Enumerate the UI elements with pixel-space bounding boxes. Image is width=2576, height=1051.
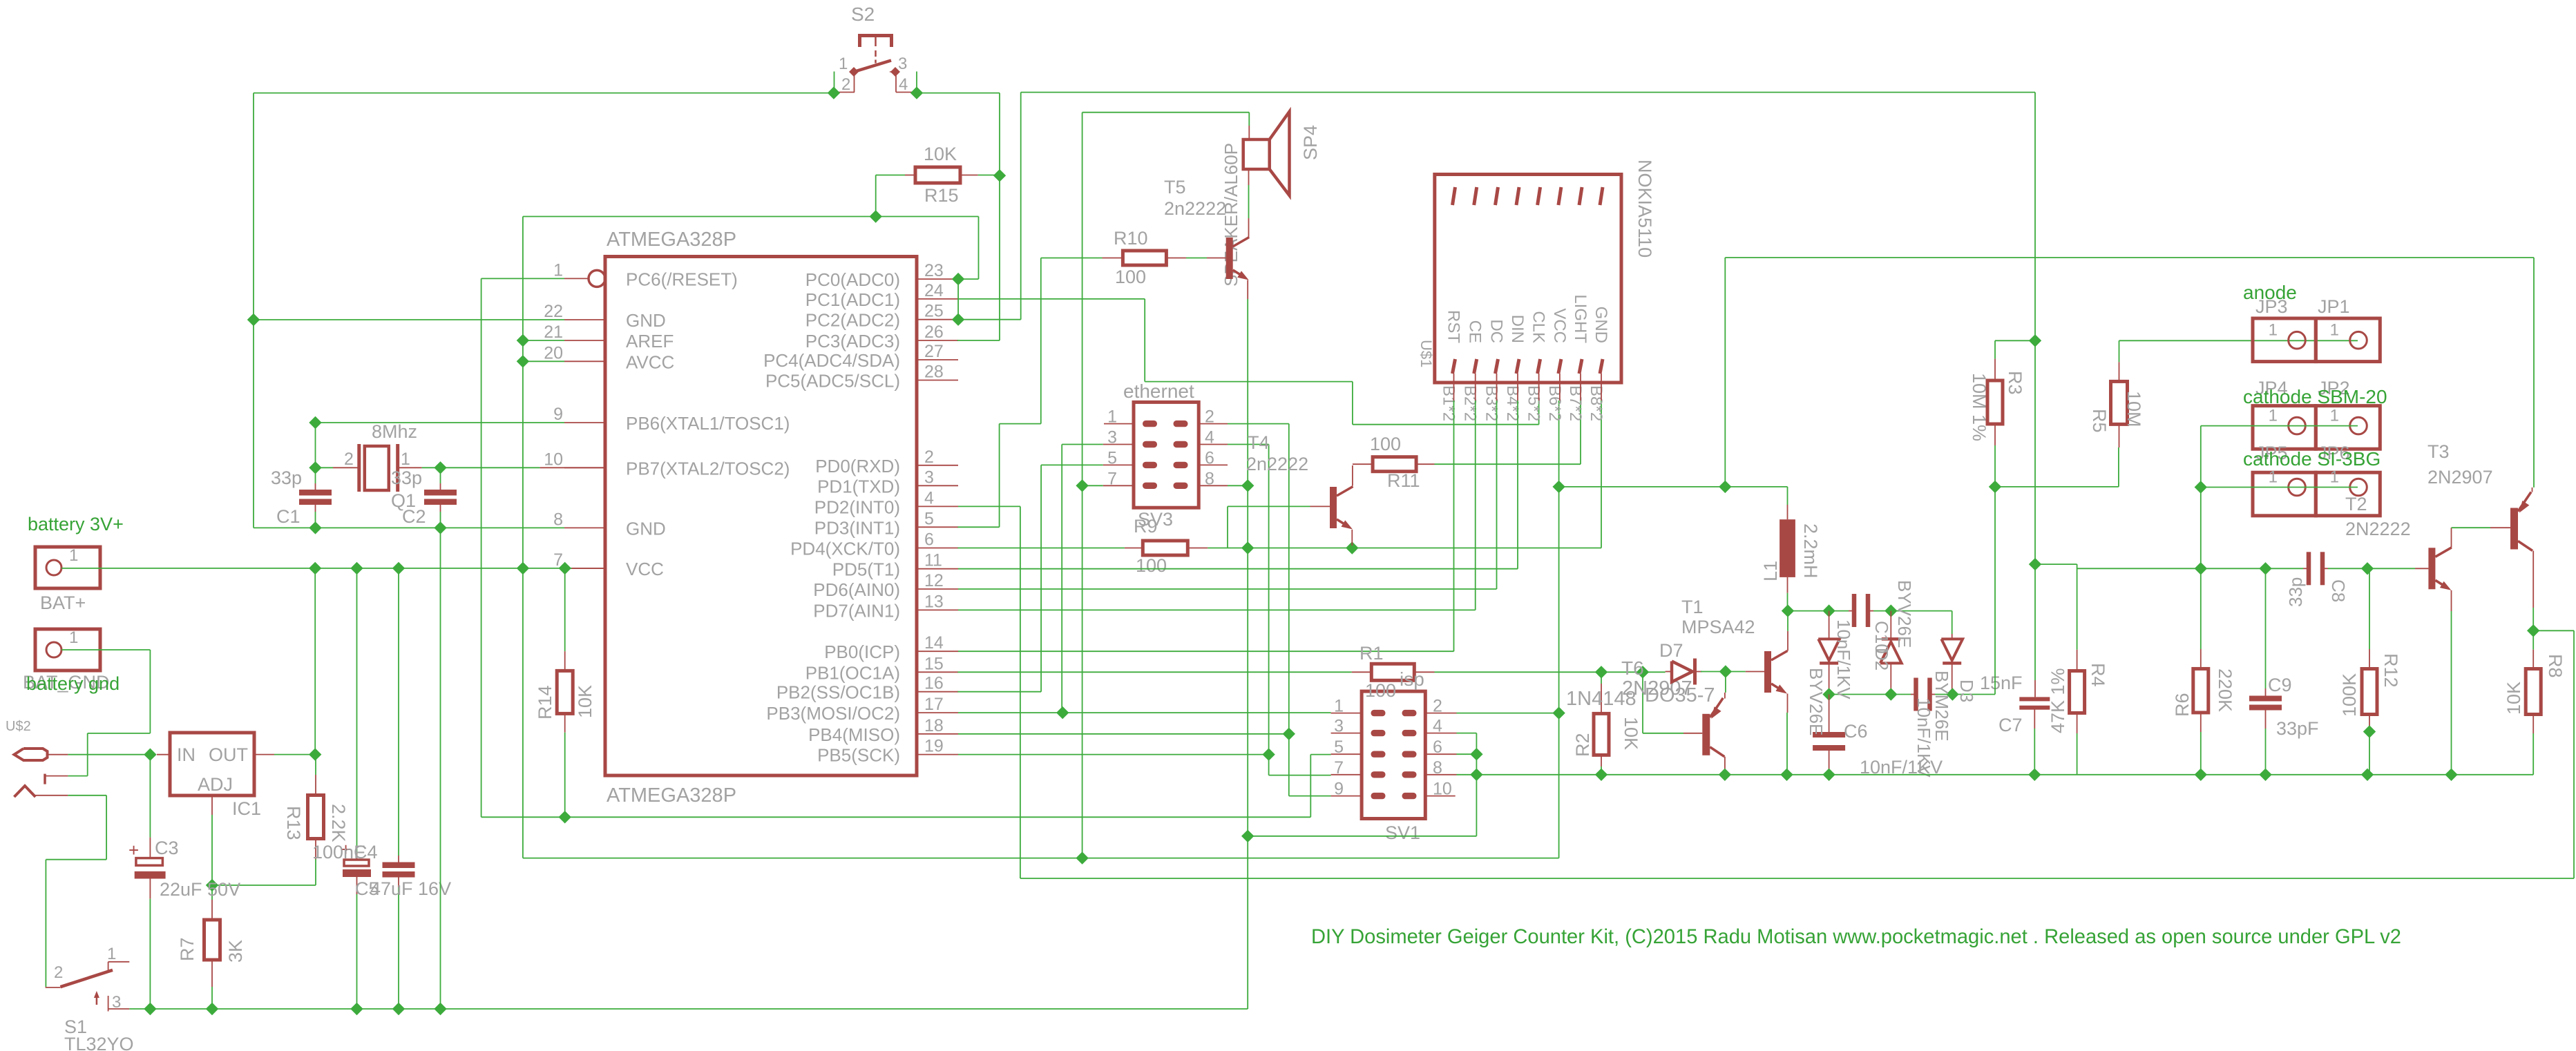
svg-text:MPSA42: MPSA42 [1681,617,1755,637]
svg-text:cathode SBM-20: cathode SBM-20 [2243,386,2387,407]
svg-text:1: 1 [2269,468,2278,487]
svg-text:PD4(XCK/T0): PD4(XCK/T0) [790,539,900,559]
svg-text:BYV26E: BYV26E [1894,580,1915,648]
svg-text:AREF: AREF [626,331,674,351]
svg-text:PC2(ADC2): PC2(ADC2) [805,310,900,331]
svg-text:24: 24 [924,281,944,300]
svg-text:1: 1 [107,945,116,963]
svg-text:R12: R12 [2381,653,2401,688]
svg-text:10K: 10K [924,144,957,164]
svg-text:2: 2 [841,75,850,94]
svg-text:C7: C7 [1998,715,2023,735]
svg-text:2n2222: 2n2222 [1246,454,1308,474]
svg-text:12: 12 [924,571,944,590]
svg-text:GND: GND [626,518,666,539]
svg-text:10K: 10K [575,685,595,718]
svg-text:10M: 10M [2124,391,2144,427]
svg-text:1N4148: 1N4148 [1566,688,1637,710]
svg-text:R8: R8 [2545,654,2566,678]
svg-text:1: 1 [401,450,410,469]
svg-text:33p: 33p [2285,577,2306,607]
svg-text:PD0(RXD): PD0(RXD) [815,456,900,476]
svg-text:D7: D7 [1659,640,1683,661]
svg-text:10M 1%: 10M 1% [1969,373,1990,441]
svg-text:1: 1 [69,546,78,565]
svg-text:OUT: OUT [209,744,248,765]
svg-text:5: 5 [924,509,934,528]
svg-text:IC1: IC1 [232,798,261,819]
svg-text:LIGHT: LIGHT [1571,294,1590,343]
svg-text:R15: R15 [924,185,959,206]
svg-text:15: 15 [924,654,944,673]
svg-text:10K: 10K [2503,682,2524,715]
svg-text:R3: R3 [2005,371,2025,395]
svg-text:B1*2: B1*2 [1440,385,1458,421]
svg-text:PC1(ADC1): PC1(ADC1) [805,289,900,310]
svg-text:33p: 33p [271,467,302,488]
svg-text:B4*2: B4*2 [1503,385,1522,421]
svg-text:PB6(XTAL1/TOSC1): PB6(XTAL1/TOSC1) [626,413,790,434]
svg-text:BYM26E: BYM26E [1931,671,1952,742]
svg-text:B7*2: B7*2 [1566,385,1585,421]
svg-text:L1: L1 [1760,561,1781,581]
svg-text:cathode SI-3BG: cathode SI-3BG [2243,448,2381,470]
svg-text:DC: DC [1487,319,1506,343]
svg-text:1: 1 [839,55,848,73]
svg-text:T2: T2 [2345,494,2367,514]
svg-text:S2: S2 [851,3,875,25]
svg-text:11: 11 [924,551,942,570]
svg-text:28: 28 [924,363,944,382]
svg-text:R4: R4 [2088,663,2108,687]
svg-text:PB7(XTAL2/TOSC2): PB7(XTAL2/TOSC2) [626,458,790,479]
svg-text:33p: 33p [391,467,422,488]
svg-text:ethernet: ethernet [1123,380,1194,402]
svg-text:GND: GND [1592,307,1610,343]
svg-text:PD3(INT1): PD3(INT1) [814,517,900,538]
svg-text:NOKIA5110: NOKIA5110 [1634,160,1655,258]
svg-text:BAT+: BAT+ [40,592,86,613]
svg-text:R6: R6 [2172,693,2193,717]
svg-text:T3: T3 [2427,441,2450,462]
svg-text:1: 1 [2330,407,2339,425]
svg-text:100: 100 [1136,555,1167,576]
svg-text:2.2K: 2.2K [328,804,349,842]
svg-text:VCC: VCC [626,559,664,579]
svg-text:DIY Dosimeter Geiger Counter K: DIY Dosimeter Geiger Counter Kit, (C)201… [1311,925,2401,948]
svg-text:25: 25 [924,302,944,321]
svg-text:9: 9 [553,405,563,424]
svg-text:1: 1 [2269,407,2278,425]
svg-text:18: 18 [924,716,944,735]
svg-text:GND: GND [626,310,666,331]
svg-text:PB3(MOSI/OC2): PB3(MOSI/OC2) [766,703,900,724]
svg-text:R1: R1 [1359,643,1384,664]
svg-text:1: 1 [2330,321,2339,340]
svg-text:13: 13 [924,592,944,611]
svg-text:1: 1 [69,628,78,647]
svg-text:100K: 100K [2339,673,2360,717]
svg-text:2n2222: 2n2222 [1164,198,1226,219]
svg-text:SP4: SP4 [1300,125,1321,160]
svg-text:C6: C6 [1844,721,1868,742]
svg-text:C9: C9 [2268,675,2292,695]
svg-text:PC3(ADC3): PC3(ADC3) [805,331,900,351]
svg-text:CE: CE [1466,320,1485,343]
svg-text:2: 2 [924,447,934,467]
svg-text:26: 26 [924,322,944,342]
svg-text:B6*2: B6*2 [1545,385,1564,421]
svg-text:100: 100 [1115,267,1146,287]
svg-text:B3*2: B3*2 [1482,385,1501,421]
svg-text:PC0(ADC0): PC0(ADC0) [805,269,900,290]
svg-text:PB5(SCK): PB5(SCK) [817,745,900,766]
svg-text:22: 22 [544,302,563,321]
svg-text:RST: RST [1444,310,1463,343]
svg-text:3: 3 [924,467,934,487]
svg-text:ATMEGA328P: ATMEGA328P [607,229,736,251]
svg-text:27: 27 [924,342,944,361]
svg-text:1: 1 [553,260,563,280]
svg-text:220K: 220K [2215,668,2235,712]
svg-text:C4: C4 [354,842,378,862]
svg-text:DO35-7: DO35-7 [1645,684,1715,706]
svg-text:T1: T1 [1681,597,1704,617]
svg-text:3: 3 [112,993,121,1012]
svg-text:47uF 16V: 47uF 16V [370,878,451,899]
svg-text:15nF: 15nF [1980,673,2023,693]
svg-text:2.2mH: 2.2mH [1800,523,1821,579]
svg-text:JP3: JP3 [2255,296,2288,317]
svg-text:PD6(AIN0): PD6(AIN0) [813,579,900,600]
svg-text:C8: C8 [2328,579,2349,602]
svg-text:PD1(TXD): PD1(TXD) [817,476,900,496]
svg-text:D2: D2 [1871,648,1892,671]
svg-text:B2*2: B2*2 [1461,385,1480,421]
svg-text:PB1(OC1A): PB1(OC1A) [805,662,900,683]
svg-text:33pF: 33pF [2276,718,2319,739]
svg-text:R10: R10 [1114,228,1148,249]
svg-text:PD7(AIN1): PD7(AIN1) [813,600,900,621]
svg-text:10nF/1KV: 10nF/1KV [1833,619,1854,700]
svg-text:R5: R5 [2089,409,2110,433]
svg-text:PB2(SS/OC1B): PB2(SS/OC1B) [776,682,900,703]
svg-text:D3: D3 [1956,679,1977,702]
svg-text:T6: T6 [1621,657,1644,679]
svg-text:2N2222: 2N2222 [2345,519,2411,539]
svg-text:2: 2 [54,963,63,982]
svg-text:T5: T5 [1164,177,1186,197]
svg-text:R14: R14 [535,685,555,720]
svg-text:R7: R7 [177,937,198,961]
svg-text:battery gnd: battery gnd [26,673,120,694]
svg-text:22uF 50V: 22uF 50V [160,879,240,900]
svg-text:Q1: Q1 [391,490,416,511]
svg-text:17: 17 [924,695,944,714]
svg-text:23: 23 [924,261,944,280]
svg-text:CLK: CLK [1529,311,1548,343]
svg-text:14: 14 [924,633,944,653]
svg-text:ATMEGA328P: ATMEGA328P [607,784,736,807]
svg-text:ADJ: ADJ [198,774,233,795]
svg-text:19: 19 [924,737,944,756]
svg-text:PB0(ICP): PB0(ICP) [824,642,900,662]
svg-text:TL32YO: TL32YO [64,1034,134,1051]
svg-text:SV1: SV1 [1385,822,1420,843]
svg-text:21: 21 [544,322,563,342]
svg-text:JP1: JP1 [2318,296,2350,317]
svg-text:8Mhz: 8Mhz [372,421,417,442]
svg-text:DIN: DIN [1508,315,1527,343]
svg-text:3K: 3K [225,940,246,963]
svg-text:1: 1 [2330,468,2339,487]
svg-text:2: 2 [344,450,354,469]
svg-text:20: 20 [544,343,563,363]
svg-text:4: 4 [899,75,908,94]
svg-text:100: 100 [1370,434,1401,454]
svg-text:1: 1 [2269,321,2278,340]
svg-text:PD2(INT0): PD2(INT0) [814,496,900,517]
svg-text:4: 4 [924,488,934,508]
svg-text:R2: R2 [1572,733,1593,757]
svg-text:C1: C1 [276,506,300,527]
svg-text:PB4(MISO): PB4(MISO) [808,724,900,745]
svg-text:R13: R13 [283,806,304,840]
svg-text:2N2907: 2N2907 [2427,467,2493,488]
svg-text:U$1: U$1 [1418,340,1435,367]
svg-text:10K: 10K [1621,717,1641,750]
svg-text:B5*2: B5*2 [1525,385,1543,421]
svg-text:R9: R9 [1134,516,1158,537]
svg-text:PC5(ADC5/SCL): PC5(ADC5/SCL) [765,371,900,392]
svg-text:3: 3 [898,55,907,73]
svg-text:8: 8 [553,510,563,529]
svg-text:T4: T4 [1248,432,1270,453]
svg-text:100: 100 [1365,680,1396,701]
svg-text:47K 1%: 47K 1% [2048,668,2068,733]
svg-text:PC4(ADC4/SDA): PC4(ADC4/SDA) [763,350,900,371]
svg-text:R11: R11 [1387,470,1420,491]
svg-text:PC6(/RESET): PC6(/RESET) [626,269,738,289]
svg-text:battery 3V+: battery 3V+ [28,514,124,534]
svg-text:B8*2: B8*2 [1587,385,1605,421]
svg-text:PD5(T1): PD5(T1) [832,559,900,580]
svg-text:10: 10 [544,450,563,469]
svg-text:AVCC: AVCC [626,351,674,372]
svg-text:C3: C3 [155,838,179,858]
svg-text:VCC: VCC [1550,308,1569,343]
svg-text:U$2: U$2 [6,719,31,734]
svg-text:6: 6 [924,530,934,550]
svg-text:IN: IN [177,744,195,765]
svg-text:16: 16 [924,674,944,693]
svg-text:BYV26E: BYV26E [1806,668,1826,735]
